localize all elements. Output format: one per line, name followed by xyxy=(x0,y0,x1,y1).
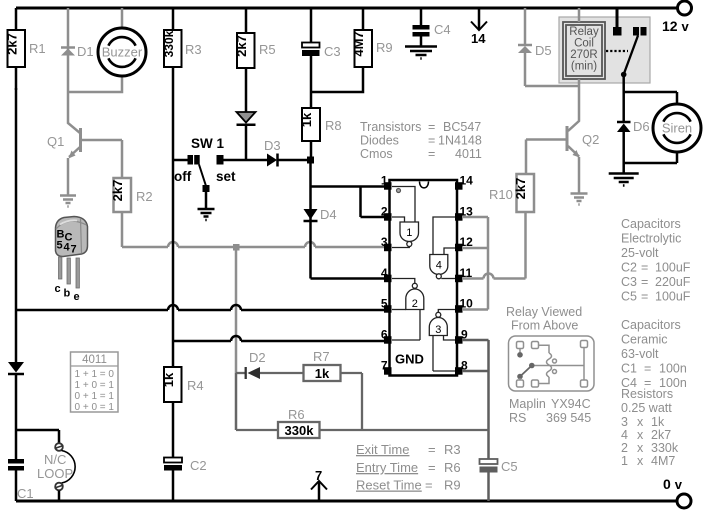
svg-text:(min): (min) xyxy=(571,61,597,73)
svg-text:14: 14 xyxy=(471,31,486,46)
svg-text:Reset Time: Reset Time xyxy=(356,478,422,493)
resistor R5 xyxy=(234,8,276,112)
svg-text:C2: C2 xyxy=(190,458,207,473)
svg-text:R5: R5 xyxy=(259,42,276,57)
svg-text:Capacitors: Capacitors xyxy=(621,318,681,332)
node pin 7 ground arrow xyxy=(311,468,327,501)
svg-text:GND: GND xyxy=(395,352,424,367)
transistor Q1 xyxy=(47,92,122,195)
svg-text:LOOP: LOOP xyxy=(37,466,73,481)
truth table 4011 xyxy=(71,352,119,413)
siren xyxy=(624,104,701,173)
svg-text:1 + 0 = 1: 1 + 0 = 1 xyxy=(75,380,115,391)
diode D2 xyxy=(236,350,304,379)
resistor R4 xyxy=(161,367,204,402)
svg-text:From Above: From Above xyxy=(511,319,578,333)
svg-text:7: 7 xyxy=(381,359,388,373)
svg-text:R2: R2 xyxy=(136,189,153,204)
svg-text:C4: C4 xyxy=(434,22,451,37)
wire relay coil leads xyxy=(578,8,581,86)
svg-text:4: 4 xyxy=(381,266,388,280)
svg-text:2k7: 2k7 xyxy=(513,178,528,200)
svg-text:D3: D3 xyxy=(264,138,281,153)
pin stubs and numbers xyxy=(381,174,473,375)
svg-text:R10: R10 xyxy=(489,187,513,202)
svg-text:2: 2 xyxy=(412,298,418,310)
svg-text:Ceramic: Ceramic xyxy=(621,333,668,347)
wire pins 1/2 xyxy=(311,187,390,218)
resistor R8 xyxy=(299,92,342,160)
svg-text:5: 5 xyxy=(57,240,63,252)
ground (C4) xyxy=(405,47,437,59)
resistor R9 xyxy=(311,8,393,92)
svg-text:Buzzer: Buzzer xyxy=(102,45,143,60)
wire pin 11 to R10 xyxy=(462,212,526,279)
svg-text:Q1: Q1 xyxy=(47,134,64,149)
wire left rail (loop sense) xyxy=(15,88,18,501)
svg-text:Q2: Q2 xyxy=(582,132,599,147)
svg-text:3: 3 xyxy=(381,235,388,249)
svg-text:3 x 1k: 3 x 1k xyxy=(621,415,665,429)
note timing xyxy=(356,442,461,493)
switch SW1 xyxy=(173,136,236,209)
note relay diagram caption xyxy=(506,305,591,425)
node junction R2 net xyxy=(233,244,240,251)
resistor R10 xyxy=(489,174,534,212)
resistor R6 xyxy=(236,407,489,438)
ground (Q2 emitter) xyxy=(571,194,588,205)
svg-text:C1 = 100n: C1 = 100n xyxy=(621,362,687,376)
node pin 14 supply arrow xyxy=(471,9,487,46)
svg-text:N/C: N/C xyxy=(44,452,66,467)
svg-text:2: 2 xyxy=(381,205,388,219)
svg-text:Entry Time: Entry Time xyxy=(356,460,418,475)
svg-text:0.25 watt: 0.25 watt xyxy=(621,401,672,415)
svg-text:R4: R4 xyxy=(187,378,204,393)
svg-text:C3: C3 xyxy=(324,44,341,59)
ground (Q1 emitter) xyxy=(60,196,76,207)
capacitor C2 xyxy=(164,402,207,501)
wire R8 to D4 rail xyxy=(309,160,312,279)
svg-text:Exit Time: Exit Time xyxy=(356,442,409,457)
capacitor C1 xyxy=(8,459,34,501)
resistor R7 xyxy=(304,349,363,430)
svg-text:e: e xyxy=(74,291,80,303)
N/C loop xyxy=(16,430,75,501)
ground (SW1) xyxy=(198,209,215,220)
wire pin 4 xyxy=(311,277,390,280)
resistor R2 xyxy=(110,140,152,247)
wire pins 13/12/10 bus xyxy=(462,217,488,310)
svg-text:2k7: 2k7 xyxy=(110,180,125,202)
gate 1 (NAND) xyxy=(392,187,419,248)
node 0v terminal xyxy=(663,476,691,508)
diode D6 xyxy=(617,92,677,163)
svg-text:6: 6 xyxy=(381,328,388,342)
svg-text:D2: D2 xyxy=(249,350,266,365)
svg-text:SW 1: SW 1 xyxy=(191,136,224,151)
diode (loop rail, unlabeled) xyxy=(8,362,24,374)
capacitor C4 xyxy=(413,8,451,46)
svg-text:b: b xyxy=(64,288,71,300)
capacitor C5 xyxy=(480,459,518,501)
transistor Q2 xyxy=(526,86,599,193)
relay RLA (coil + contacts) xyxy=(559,17,650,83)
svg-text:2k7: 2k7 xyxy=(234,35,249,57)
diode D4 xyxy=(304,207,337,222)
gate 2 (NAND) xyxy=(392,279,424,341)
capacitor C3 xyxy=(302,8,341,92)
svg-text:4M7: 4M7 xyxy=(351,31,366,56)
diode D1 xyxy=(61,8,94,92)
svg-text:63-volt: 63-volt xyxy=(621,347,659,361)
note device types xyxy=(360,120,482,161)
svg-text:4011: 4011 xyxy=(82,354,107,366)
svg-text:1: 1 xyxy=(381,174,388,188)
svg-text:14: 14 xyxy=(460,174,474,188)
note parts list xyxy=(621,217,691,468)
svg-text:7: 7 xyxy=(71,244,77,256)
svg-text:1 + 1 = 0: 1 + 1 = 0 xyxy=(75,369,115,380)
svg-text:4 x 2k7: 4 x 2k7 xyxy=(621,428,671,442)
wire 0V bottom rail xyxy=(16,500,676,503)
svg-text:330k: 330k xyxy=(285,423,315,438)
diode (unlabeled, below R5) xyxy=(237,112,256,160)
diode D5 xyxy=(518,8,579,86)
wire pin 6 xyxy=(173,336,389,341)
svg-text:5: 5 xyxy=(381,297,388,311)
svg-text:1k: 1k xyxy=(161,372,176,387)
wire 12V top rail xyxy=(16,7,677,10)
svg-text:2k7: 2k7 xyxy=(5,33,20,55)
svg-text:0 + 1 = 1: 0 + 1 = 1 xyxy=(75,391,115,402)
svg-text:BC547: BC547 xyxy=(443,120,481,134)
svg-text:Resistors: Resistors xyxy=(621,387,673,401)
svg-text:Cmos: Cmos xyxy=(360,147,393,161)
svg-text:C5 = 100uF: C5 = 100uF xyxy=(621,290,691,304)
relay top view diagram xyxy=(509,336,595,391)
svg-text:R1: R1 xyxy=(29,41,46,56)
resistor R3 xyxy=(162,8,202,67)
wire pin 5 (loop sense line) xyxy=(16,305,389,310)
svg-text:Diodes: Diodes xyxy=(360,134,399,148)
svg-text:D6: D6 xyxy=(633,119,650,134)
gate 3 (NAND) xyxy=(429,310,455,372)
svg-text:Electrolytic: Electrolytic xyxy=(621,232,681,246)
svg-text:D5: D5 xyxy=(535,43,552,58)
svg-text:C3 = 220uF: C3 = 220uF xyxy=(621,275,691,289)
wire gray vertical to D2/R6 xyxy=(235,247,238,373)
svg-text:R3: R3 xyxy=(185,42,202,57)
svg-text:4011: 4011 xyxy=(455,147,482,161)
buzzer xyxy=(68,8,146,92)
svg-text:Siren: Siren xyxy=(662,121,692,136)
svg-text:270R: 270R xyxy=(570,49,598,61)
svg-text:3: 3 xyxy=(435,324,441,336)
svg-text:=: = xyxy=(428,442,436,457)
svg-text:RS 369 545: RS 369 545 xyxy=(509,411,591,425)
svg-text:=: = xyxy=(428,460,436,475)
transistor package BC547 illustration xyxy=(55,217,88,304)
node junction D3/R8 xyxy=(307,157,314,164)
svg-text:R7: R7 xyxy=(313,349,330,364)
svg-text:1k: 1k xyxy=(299,112,314,127)
node 12v terminal xyxy=(662,1,692,34)
svg-text:C1: C1 xyxy=(17,486,34,501)
svg-text:=: = xyxy=(428,147,435,161)
relay NC contact pin xyxy=(613,8,622,36)
svg-text:R6: R6 xyxy=(444,460,461,475)
svg-text:set: set xyxy=(216,169,236,184)
svg-text:C5: C5 xyxy=(501,459,518,474)
svg-text:0 + 0 = 1: 0 + 0 = 1 xyxy=(75,402,115,413)
ground (siren) xyxy=(609,174,639,186)
svg-text:R8: R8 xyxy=(325,118,342,133)
relay armature contacts xyxy=(606,27,647,92)
svg-text:12 v: 12 v xyxy=(662,18,689,34)
svg-text:1N4148: 1N4148 xyxy=(438,134,482,148)
svg-text:=: = xyxy=(425,478,433,493)
svg-text:Relay: Relay xyxy=(569,26,599,38)
svg-text:off: off xyxy=(174,169,192,184)
svg-text:D4: D4 xyxy=(320,207,337,222)
gate 4 (NAND) xyxy=(430,217,455,279)
svg-text:=: = xyxy=(428,120,435,134)
svg-text:4: 4 xyxy=(436,260,442,272)
wire R2 to pin 3 (gray net) xyxy=(122,242,389,247)
svg-text:Coil: Coil xyxy=(574,38,594,50)
svg-text:4: 4 xyxy=(64,242,71,254)
svg-text:D1: D1 xyxy=(77,44,94,59)
resistor R1 xyxy=(5,8,46,90)
svg-text:R9: R9 xyxy=(376,40,393,55)
svg-text:25-volt: 25-volt xyxy=(621,246,659,260)
svg-text:R9: R9 xyxy=(444,478,461,493)
svg-text:R3: R3 xyxy=(444,442,461,457)
wire R3/R4 rail xyxy=(172,67,175,367)
svg-text:1k: 1k xyxy=(315,366,330,381)
svg-text:Relay Viewed: Relay Viewed xyxy=(506,305,582,319)
svg-text:7: 7 xyxy=(315,468,322,483)
svg-text:1: 1 xyxy=(406,227,412,239)
op-amp U1 IC 4011 body xyxy=(390,180,458,376)
svg-text:330k: 330k xyxy=(162,30,176,57)
svg-text:0 v: 0 v xyxy=(663,476,683,492)
svg-text:C2 = 100uF: C2 = 100uF xyxy=(621,261,691,275)
diode D3 xyxy=(224,138,310,167)
svg-text:=: = xyxy=(428,134,435,148)
svg-text:R6: R6 xyxy=(288,407,305,422)
svg-text:Transistors: Transistors xyxy=(360,120,421,134)
svg-text:Capacitors: Capacitors xyxy=(621,217,681,231)
svg-text:c: c xyxy=(55,283,61,295)
wire pins 8/9 bus xyxy=(462,340,489,459)
